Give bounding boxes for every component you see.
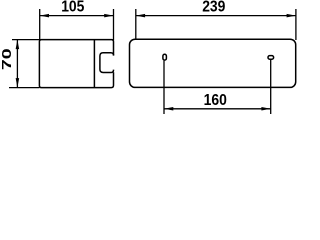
dimension 70: extension lines: [9, 40, 39, 88]
side view inner back-wall line: [93, 40, 95, 87]
front view right mounting hole (horizontal slot): [268, 56, 274, 60]
svg-text:239: 239: [202, 0, 225, 16]
dimension 160: right arrow: [261, 107, 270, 111]
dimension 105: extension lines: [40, 9, 114, 40]
dimension 160: extension lines: [164, 60, 271, 114]
dimension 160: dimension line: [164, 108, 271, 110]
dimension 105: dimension line: [40, 15, 114, 17]
svg-text:160: 160: [204, 91, 227, 109]
dimension 160: left arrow: [164, 107, 173, 111]
svg-text:105: 105: [61, 0, 84, 16]
svg-text:70: 70: [1, 48, 15, 70]
front view rounded body (239 wide): [130, 39, 296, 87]
dimension 239: extension lines: [136, 9, 296, 40]
dimension 105: left arrow: [40, 14, 49, 18]
dimension 239: dimension line: [136, 15, 296, 17]
dimension 239: right arrow: [287, 14, 296, 18]
dimension 70: dimension line: [16, 40, 18, 88]
dimension 70: bottom arrow: [16, 78, 20, 88]
dimension 105: right arrow: [104, 14, 113, 18]
dimension 239: left arrow: [136, 14, 145, 18]
dimension 70: top arrow: [16, 40, 20, 50]
side view outline (left view, 105 x 70): [39, 40, 113, 88]
front view left mounting hole (vertical slot): [163, 54, 167, 60]
side view wall-hook channel profile: [100, 53, 114, 73]
